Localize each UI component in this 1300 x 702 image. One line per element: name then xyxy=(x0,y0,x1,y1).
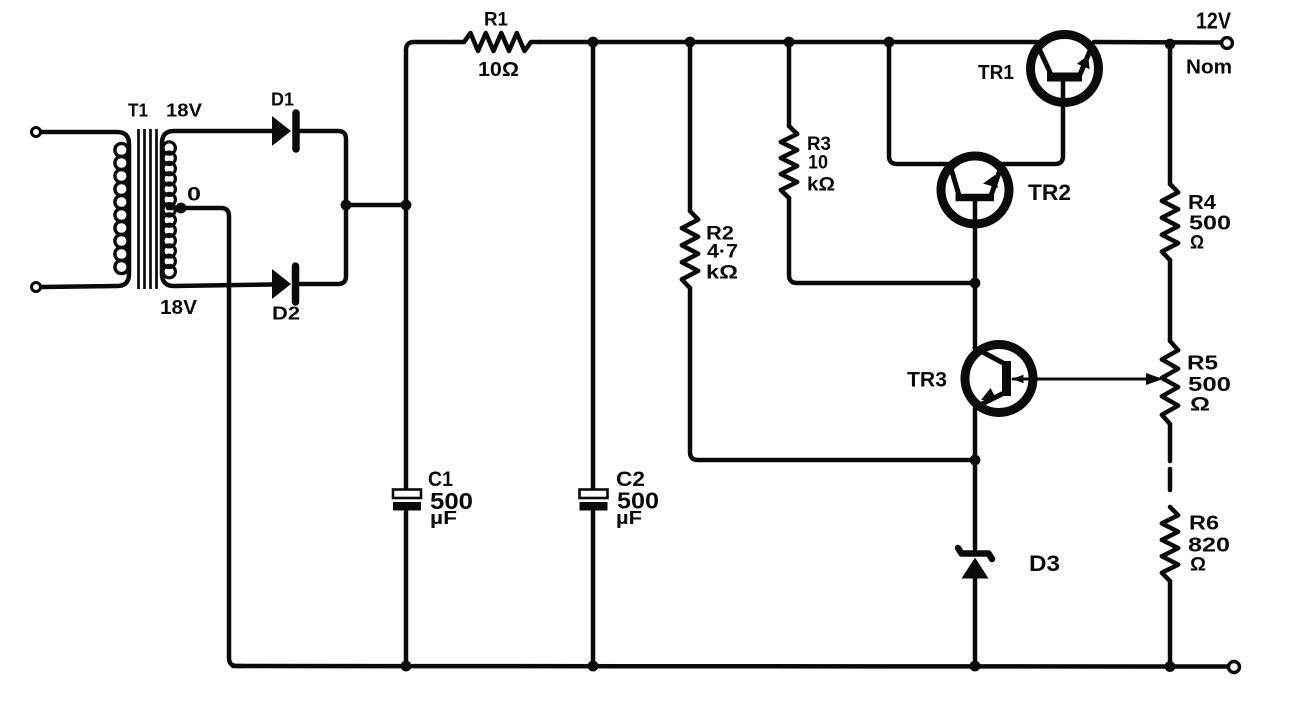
node: rectifier junction xyxy=(341,200,352,211)
svg-text:10Ω: 10Ω xyxy=(478,58,519,81)
diode D1 xyxy=(272,113,296,149)
diode D3 (zener) xyxy=(958,548,992,579)
svg-text:820: 820 xyxy=(1188,534,1230,557)
node: bottom rail at C2 xyxy=(588,661,599,672)
node: bottom rail at C1 xyxy=(401,661,412,672)
svg-text:500: 500 xyxy=(1188,373,1231,396)
transistor TR2 xyxy=(941,156,1009,224)
svg-text:T1: T1 xyxy=(128,101,148,121)
svg-text:18V: 18V xyxy=(166,101,202,121)
resistor R5 (preset) xyxy=(1162,341,1178,424)
node: bottom rail at R6 xyxy=(1165,661,1176,672)
wire: node to D3 xyxy=(973,460,978,549)
arrow: wiper at TR3 base xyxy=(1012,375,1024,383)
transistor TR1 xyxy=(1031,35,1099,103)
wire: D3 to bottom rail xyxy=(973,578,978,666)
wire: C1 to bottom rail xyxy=(404,510,409,666)
transistor TR3 xyxy=(965,345,1033,413)
svg-text:µF: µF xyxy=(430,508,457,528)
wire: D1/D2 cathodes to junction xyxy=(299,131,346,284)
svg-text:D3: D3 xyxy=(1029,551,1060,576)
diode D2 xyxy=(272,266,296,302)
svg-text:µF: µF xyxy=(616,508,642,528)
svg-text:R5: R5 xyxy=(1187,353,1218,375)
wire: C2 to bottom rail xyxy=(591,510,596,666)
wire: centre tap to bottom rail xyxy=(168,208,242,666)
svg-text:Ω: Ω xyxy=(1190,233,1204,254)
wire: R4 to R5 xyxy=(1168,260,1173,341)
svg-text:4·7: 4·7 xyxy=(707,242,738,263)
svg-text:kΩ: kΩ xyxy=(706,263,738,284)
wire: top rail R1 to TR1 collector xyxy=(540,40,1037,45)
resistor R6 xyxy=(1162,507,1178,581)
svg-text:Ω: Ω xyxy=(1190,395,1210,416)
svg-text:TR2: TR2 xyxy=(1028,180,1071,205)
wire: riser to top rail xyxy=(406,42,456,205)
svg-text:Nom: Nom xyxy=(1186,56,1232,79)
terminal: AC input top xyxy=(32,128,41,137)
node: unregulated rail at C1 xyxy=(401,200,412,211)
svg-text:500: 500 xyxy=(1189,212,1231,235)
svg-text:TR1: TR1 xyxy=(978,61,1014,84)
wire: TR3 base to R5 wiper xyxy=(1013,378,1148,381)
wire: R2 top lead xyxy=(688,42,693,211)
svg-text:18V: 18V xyxy=(160,296,197,319)
wire: R3 top lead xyxy=(787,42,792,126)
wire: C2 column upper xyxy=(591,42,596,490)
wire: rail to TR2 collector xyxy=(889,42,950,164)
svg-text:Ω: Ω xyxy=(1190,555,1206,576)
svg-text:10: 10 xyxy=(808,153,828,174)
resistor R4 xyxy=(1162,184,1178,260)
wire: TR3 emitter down to node xyxy=(973,408,978,460)
node: bottom rail at D3 xyxy=(970,661,981,672)
wire: R2 bottom to TR3 emitter node xyxy=(690,288,973,460)
resistor R3 xyxy=(781,126,797,198)
node: top rail at C2 xyxy=(588,37,599,48)
terminal: 0V output xyxy=(1229,662,1240,673)
svg-text:kΩ: kΩ xyxy=(807,175,835,196)
wire: bottom rail xyxy=(233,664,1228,669)
node: centre tap 0 xyxy=(176,203,187,214)
capacitor C2 xyxy=(580,490,608,511)
wire: junction to reservoir node xyxy=(346,203,406,208)
node: TR2 base / TR3 collector node xyxy=(970,278,981,289)
wire: top rail TR1 emitter to output xyxy=(1094,40,1221,45)
node: top rail at R2 xyxy=(685,37,696,48)
wire: node to TR3 collector xyxy=(973,283,978,348)
svg-text:0: 0 xyxy=(187,185,201,206)
svg-text:12V: 12V xyxy=(1196,8,1232,34)
capacitor C1 xyxy=(393,490,421,511)
transformer T1 secondary winding xyxy=(162,131,272,286)
arrow: R5 wiper head xyxy=(1146,373,1163,385)
wire: output rail to R4 xyxy=(1168,44,1173,184)
node: TR3 emitter / D3 node xyxy=(970,455,981,466)
svg-text:R1: R1 xyxy=(484,10,508,31)
wire: dashed link R5 to R6 xyxy=(1168,469,1173,490)
terminal: +12V output xyxy=(1222,38,1233,49)
wire: R3 bottom to TR2 base node xyxy=(789,198,973,283)
node: top rail at R3 xyxy=(784,37,795,48)
terminal: AC input bottom xyxy=(32,283,41,292)
wire: TR2 base lead down xyxy=(973,201,978,283)
node: output rail junction xyxy=(1165,39,1176,50)
node: top rail at TR2 collector xyxy=(884,37,895,48)
resistor R1 xyxy=(456,33,540,51)
resistor R2 xyxy=(682,211,698,288)
transformer T1 primary winding xyxy=(40,132,129,287)
svg-text:R6: R6 xyxy=(1189,513,1219,535)
svg-text:TR3: TR3 xyxy=(907,369,947,392)
svg-text:D1: D1 xyxy=(271,90,294,110)
wire: C1 column upper xyxy=(404,205,409,490)
wire: R5 lower lead xyxy=(1168,424,1173,461)
svg-text:D2: D2 xyxy=(272,304,300,324)
wire: R6 to bottom rail xyxy=(1168,581,1173,667)
wire: TR2 emitter to TR1 base xyxy=(1000,81,1063,164)
transformer T1 core xyxy=(139,129,157,289)
